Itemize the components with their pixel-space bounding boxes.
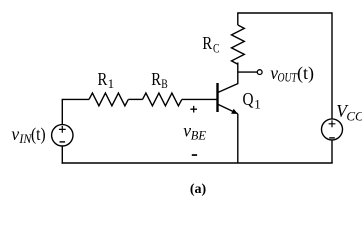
svg-text:v: v [11,124,19,144]
svg-text:(t): (t) [297,63,314,84]
svg-text:B: B [161,76,168,91]
label vBE [183,121,206,143]
svg-text:R: R [151,69,161,89]
wire RC top lead [237,12,239,25]
label RC [202,33,219,56]
voltage source VCC [322,119,343,140]
wire output tap [238,71,257,73]
wire right rail upper [331,12,333,119]
label plus vBE [190,106,197,113]
svg-text:1: 1 [254,96,261,111]
wire base segment right [182,98,217,100]
label vin(t) [11,124,45,146]
wire vin upper lead [61,99,63,124]
wire bottom rail [62,162,333,164]
svg-text:C: C [213,40,220,55]
svg-text:CC: CC [346,108,362,123]
svg-text:OUT: OUT [278,70,298,85]
transistor Q1 [218,83,238,114]
svg-text:Q: Q [243,89,254,109]
wire collector vertical [237,63,239,85]
wire vin lower lead [61,146,63,164]
wire between R1 and RB [128,98,142,100]
label minus vBE [192,154,197,156]
wire emitter vertical [237,114,239,163]
svg-text:BE: BE [191,127,206,142]
svg-text:R: R [98,69,108,89]
svg-text:1: 1 [108,76,115,91]
resistor R1 [89,93,128,106]
resistor RB [143,93,182,106]
wire top rail [238,12,332,14]
resistor RC [232,25,245,64]
label vout(t) [270,63,314,85]
svg-text:(a): (a) [190,182,207,197]
svg-text:(t): (t) [31,124,46,145]
svg-text:R: R [202,33,212,53]
wire right rail lower [331,140,333,163]
voltage source vin [52,125,73,146]
label RB [151,69,168,91]
wire base segment left [62,98,89,100]
label R1 [98,69,115,91]
node vout open circle [257,70,262,75]
label Q1 [243,89,261,112]
